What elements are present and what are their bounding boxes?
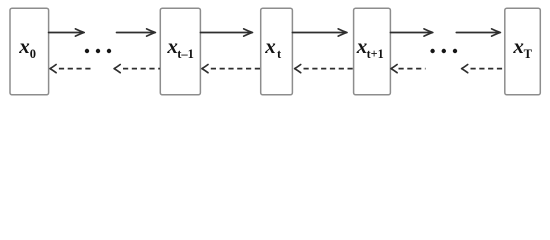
svg-text:T: T xyxy=(524,47,533,61)
box xt xyxy=(261,8,293,95)
svg-text:x: x xyxy=(512,34,524,58)
wire: solid forward arrow from xt+1 toward dots xyxy=(390,29,432,36)
svg-text:x: x xyxy=(18,34,30,58)
svg-text:x: x xyxy=(264,34,276,58)
wire: solid forward arrow from dots to xT xyxy=(456,29,500,36)
svg-text:t+1: t+1 xyxy=(367,47,384,61)
box xt+1 xyxy=(354,8,391,95)
wire: dashed reverse arrow xt to xt-1 xyxy=(202,65,261,73)
box xT xyxy=(505,8,541,95)
ellipsis dots right group xyxy=(430,49,457,53)
wire: dashed reverse arrow from xT toward dots xyxy=(462,65,505,73)
wire: dashed reverse arrow into x0 xyxy=(50,65,91,73)
wire: solid forward arrow from dots to xt-1 xyxy=(117,29,156,36)
wire: solid forward arrow xt-1 to xt xyxy=(200,29,252,36)
box x0 xyxy=(10,8,49,95)
svg-text:0: 0 xyxy=(30,47,36,61)
ellipsis dots left group xyxy=(85,49,111,53)
wire: dashed reverse arrow into xt+1 xyxy=(391,65,426,73)
wire: dashed reverse arrow from xt-1 toward dots xyxy=(114,65,160,73)
svg-text:t–1: t–1 xyxy=(177,47,194,61)
wire: solid forward arrow xt to xt+1 xyxy=(292,29,347,36)
svg-text:x: x xyxy=(356,34,368,58)
box xt-1 xyxy=(160,8,200,95)
svg-text:x: x xyxy=(166,34,178,58)
wire: solid forward arrow from x0 toward dots xyxy=(49,29,85,36)
wire: dashed reverse arrow xt+1 to xt xyxy=(295,65,354,73)
